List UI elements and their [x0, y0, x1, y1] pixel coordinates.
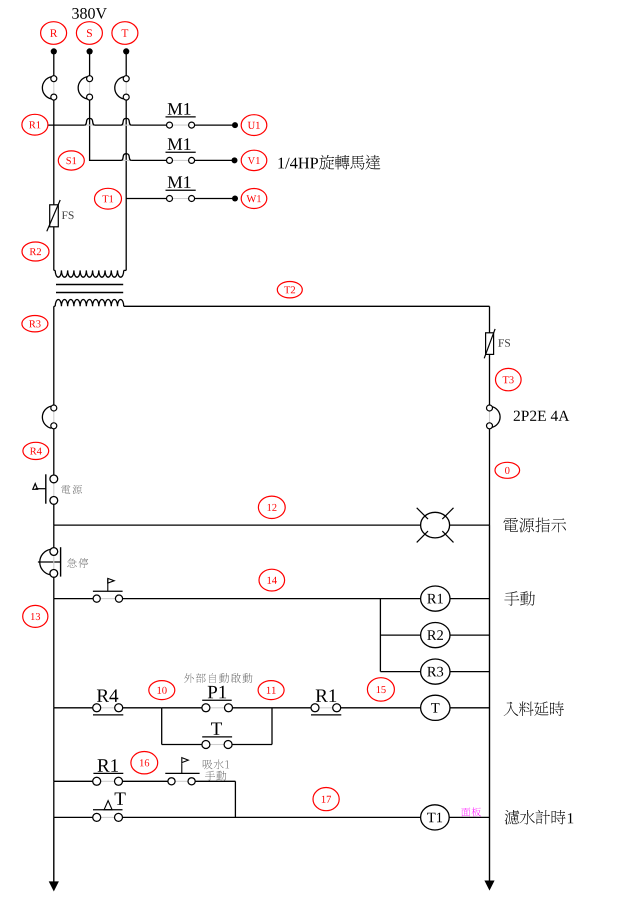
wire S drop — [89, 51, 91, 75]
label 13 — [23, 605, 48, 627]
label T3 — [496, 368, 522, 390]
wire T drop — [125, 51, 127, 75]
wire row V1 to contact — [131, 159, 166, 161]
branch right vertical — [271, 708, 273, 745]
node S dot — [87, 48, 93, 54]
coil T — [421, 695, 450, 720]
transformer primary winding — [54, 270, 126, 277]
pushbutton manual row14 — [93, 578, 123, 602]
contact R4 row15 — [93, 689, 124, 715]
left rail secondary to breaker — [53, 306, 55, 405]
wire row16 left — [54, 780, 93, 782]
wire coil T1 to rail — [449, 816, 489, 818]
label manual-small CJK — [205, 771, 226, 781]
label T1 top — [95, 188, 122, 209]
wire coil T to rail — [450, 707, 490, 709]
terminal W1 — [241, 189, 267, 209]
wire R fuse to transformer — [53, 227, 55, 271]
wire branch to R1 contact — [272, 707, 311, 709]
wire row R2 — [380, 634, 420, 636]
label R3 — [22, 316, 48, 332]
label 16 — [131, 752, 158, 774]
coil T1 — [421, 805, 450, 830]
contact M1 row W1 — [166, 190, 196, 201]
label 2P2E 4A — [514, 411, 570, 421]
wire row14 right — [123, 598, 421, 600]
contact T branch — [162, 723, 272, 749]
label R2 — [22, 242, 49, 261]
wire hop over S — [84, 118, 94, 125]
emergency stop button — [38, 547, 61, 577]
label 11 — [258, 681, 284, 700]
left rail breaker to power button — [53, 429, 55, 475]
label filter-timer CJK — [505, 810, 574, 825]
breaker pole R (NFB) — [42, 76, 56, 100]
wire R1 to button row16 — [123, 780, 169, 782]
right rail top — [489, 306, 491, 333]
right rail breaker to lamp row — [489, 429, 491, 525]
label R4 — [23, 442, 49, 459]
label power-indicator CJK — [503, 518, 566, 533]
contact T delay row17 — [93, 793, 126, 822]
label M1 row U1 — [168, 103, 191, 115]
wire row R3 — [380, 671, 420, 673]
label feed-delay CJK — [504, 702, 564, 717]
right rail lamp row to bottom arrow — [485, 525, 494, 890]
wire branch to P1 — [162, 707, 202, 709]
wire row17 to coil T1 — [123, 816, 421, 818]
label FS left — [62, 211, 74, 219]
lamp power indicator — [417, 508, 454, 543]
label motor CJK — [319, 155, 380, 170]
left rail row16 to row17 — [53, 781, 55, 817]
terminal R — [41, 22, 67, 45]
coil R1 — [421, 586, 450, 611]
label T2 — [277, 282, 302, 298]
wire coil R3 to rail — [450, 671, 490, 673]
left rail button to lamp row — [53, 504, 55, 525]
contact R1 row15 — [311, 689, 341, 715]
breaker pole S (NFB) — [78, 76, 92, 100]
label M1 row W1 — [168, 176, 191, 188]
label manual CJK — [504, 591, 535, 606]
label power CJK — [61, 485, 82, 494]
wire row17 left — [54, 816, 93, 818]
breaker pole T (NFB) — [115, 76, 129, 100]
label R1 left — [22, 114, 48, 135]
terminal T — [112, 22, 138, 45]
wire row U1 left — [48, 124, 84, 126]
label 1/4HP motor — [278, 158, 318, 169]
label 10 — [149, 681, 175, 700]
label estop CJK — [67, 558, 88, 568]
label 0 — [495, 462, 520, 478]
contact M1 row V1 — [166, 152, 196, 163]
label suction1 CJK — [203, 759, 229, 769]
wire hop over T — [121, 118, 131, 125]
fuse FS right — [484, 329, 495, 358]
wire T down to row W1 — [125, 100, 127, 198]
node R dot — [51, 48, 57, 54]
label M1 row V1 — [168, 138, 191, 150]
wire R1 to coil T — [341, 707, 421, 709]
label FS right — [498, 339, 510, 347]
left rail lamp row to estop — [53, 525, 55, 548]
fuse FS left — [47, 200, 60, 231]
wire row V1 right — [195, 159, 235, 161]
left rail row15 to row16 — [53, 708, 55, 782]
contact M1 row U1 — [166, 117, 196, 128]
coil R3 — [421, 659, 450, 684]
breaker left rail — [42, 405, 56, 429]
wire row U1 right — [195, 124, 235, 126]
wire secondary to right rail — [124, 305, 490, 307]
wire coil R1 to rail — [450, 598, 490, 600]
wire row16 drop to row17 — [234, 781, 236, 817]
wire R down to row U1 — [53, 100, 55, 125]
terminal V1 — [241, 150, 267, 170]
wire T down to transformer — [125, 199, 127, 271]
wire R drop — [53, 51, 55, 75]
wire P1 to branch right — [233, 707, 273, 709]
wire lamp row right — [450, 524, 490, 526]
node W1 dot — [232, 196, 238, 202]
terminal U1 — [241, 115, 267, 136]
node T dot — [123, 48, 129, 54]
wire row15 left — [54, 707, 93, 709]
wire S corner to row V1 — [89, 159, 121, 161]
breaker 2P2E — [487, 405, 501, 429]
label external-auto-start CJK — [184, 673, 252, 683]
transformer secondary winding — [54, 299, 124, 306]
contact P1 — [202, 686, 233, 712]
wire branch down R2 R3 — [379, 599, 381, 672]
coil R2 — [421, 623, 450, 648]
node V1 dot — [232, 157, 238, 163]
wire row U1 to contact — [131, 124, 166, 126]
label 380V — [72, 8, 107, 19]
wire row16 right — [195, 780, 235, 782]
wire coil R2 to rail — [450, 634, 490, 636]
right rail fuse to breaker — [489, 354, 491, 405]
left rail estop to row 14 — [53, 577, 55, 598]
wire row W1 right — [195, 198, 235, 200]
left rail to bottom arrow — [49, 817, 58, 890]
label panel CJK magenta — [461, 807, 481, 816]
transformer core — [56, 285, 123, 293]
wire row14 left — [54, 598, 93, 600]
wire lamp row left — [54, 524, 421, 526]
contact R1 row16 — [93, 759, 124, 785]
label S1 — [58, 151, 84, 170]
label 12 — [258, 496, 285, 518]
power switch (maintained) — [33, 474, 58, 504]
wire R down to fuse FS — [53, 125, 55, 205]
wire T corner to contact — [126, 198, 166, 200]
wire S down to row V1 — [89, 100, 91, 160]
node U1 dot — [232, 122, 238, 128]
wire R4 to branch — [123, 707, 162, 709]
left rail row14 to row15 — [53, 599, 55, 708]
branch left vertical — [161, 708, 163, 745]
label 17 — [313, 788, 339, 811]
pushbutton suction row16 — [165, 758, 199, 785]
label 14 — [259, 569, 285, 591]
wire hop over T row V1 — [121, 154, 131, 161]
wire row U1 mid — [95, 124, 121, 126]
terminal S — [76, 22, 102, 45]
label 15 — [367, 678, 394, 701]
